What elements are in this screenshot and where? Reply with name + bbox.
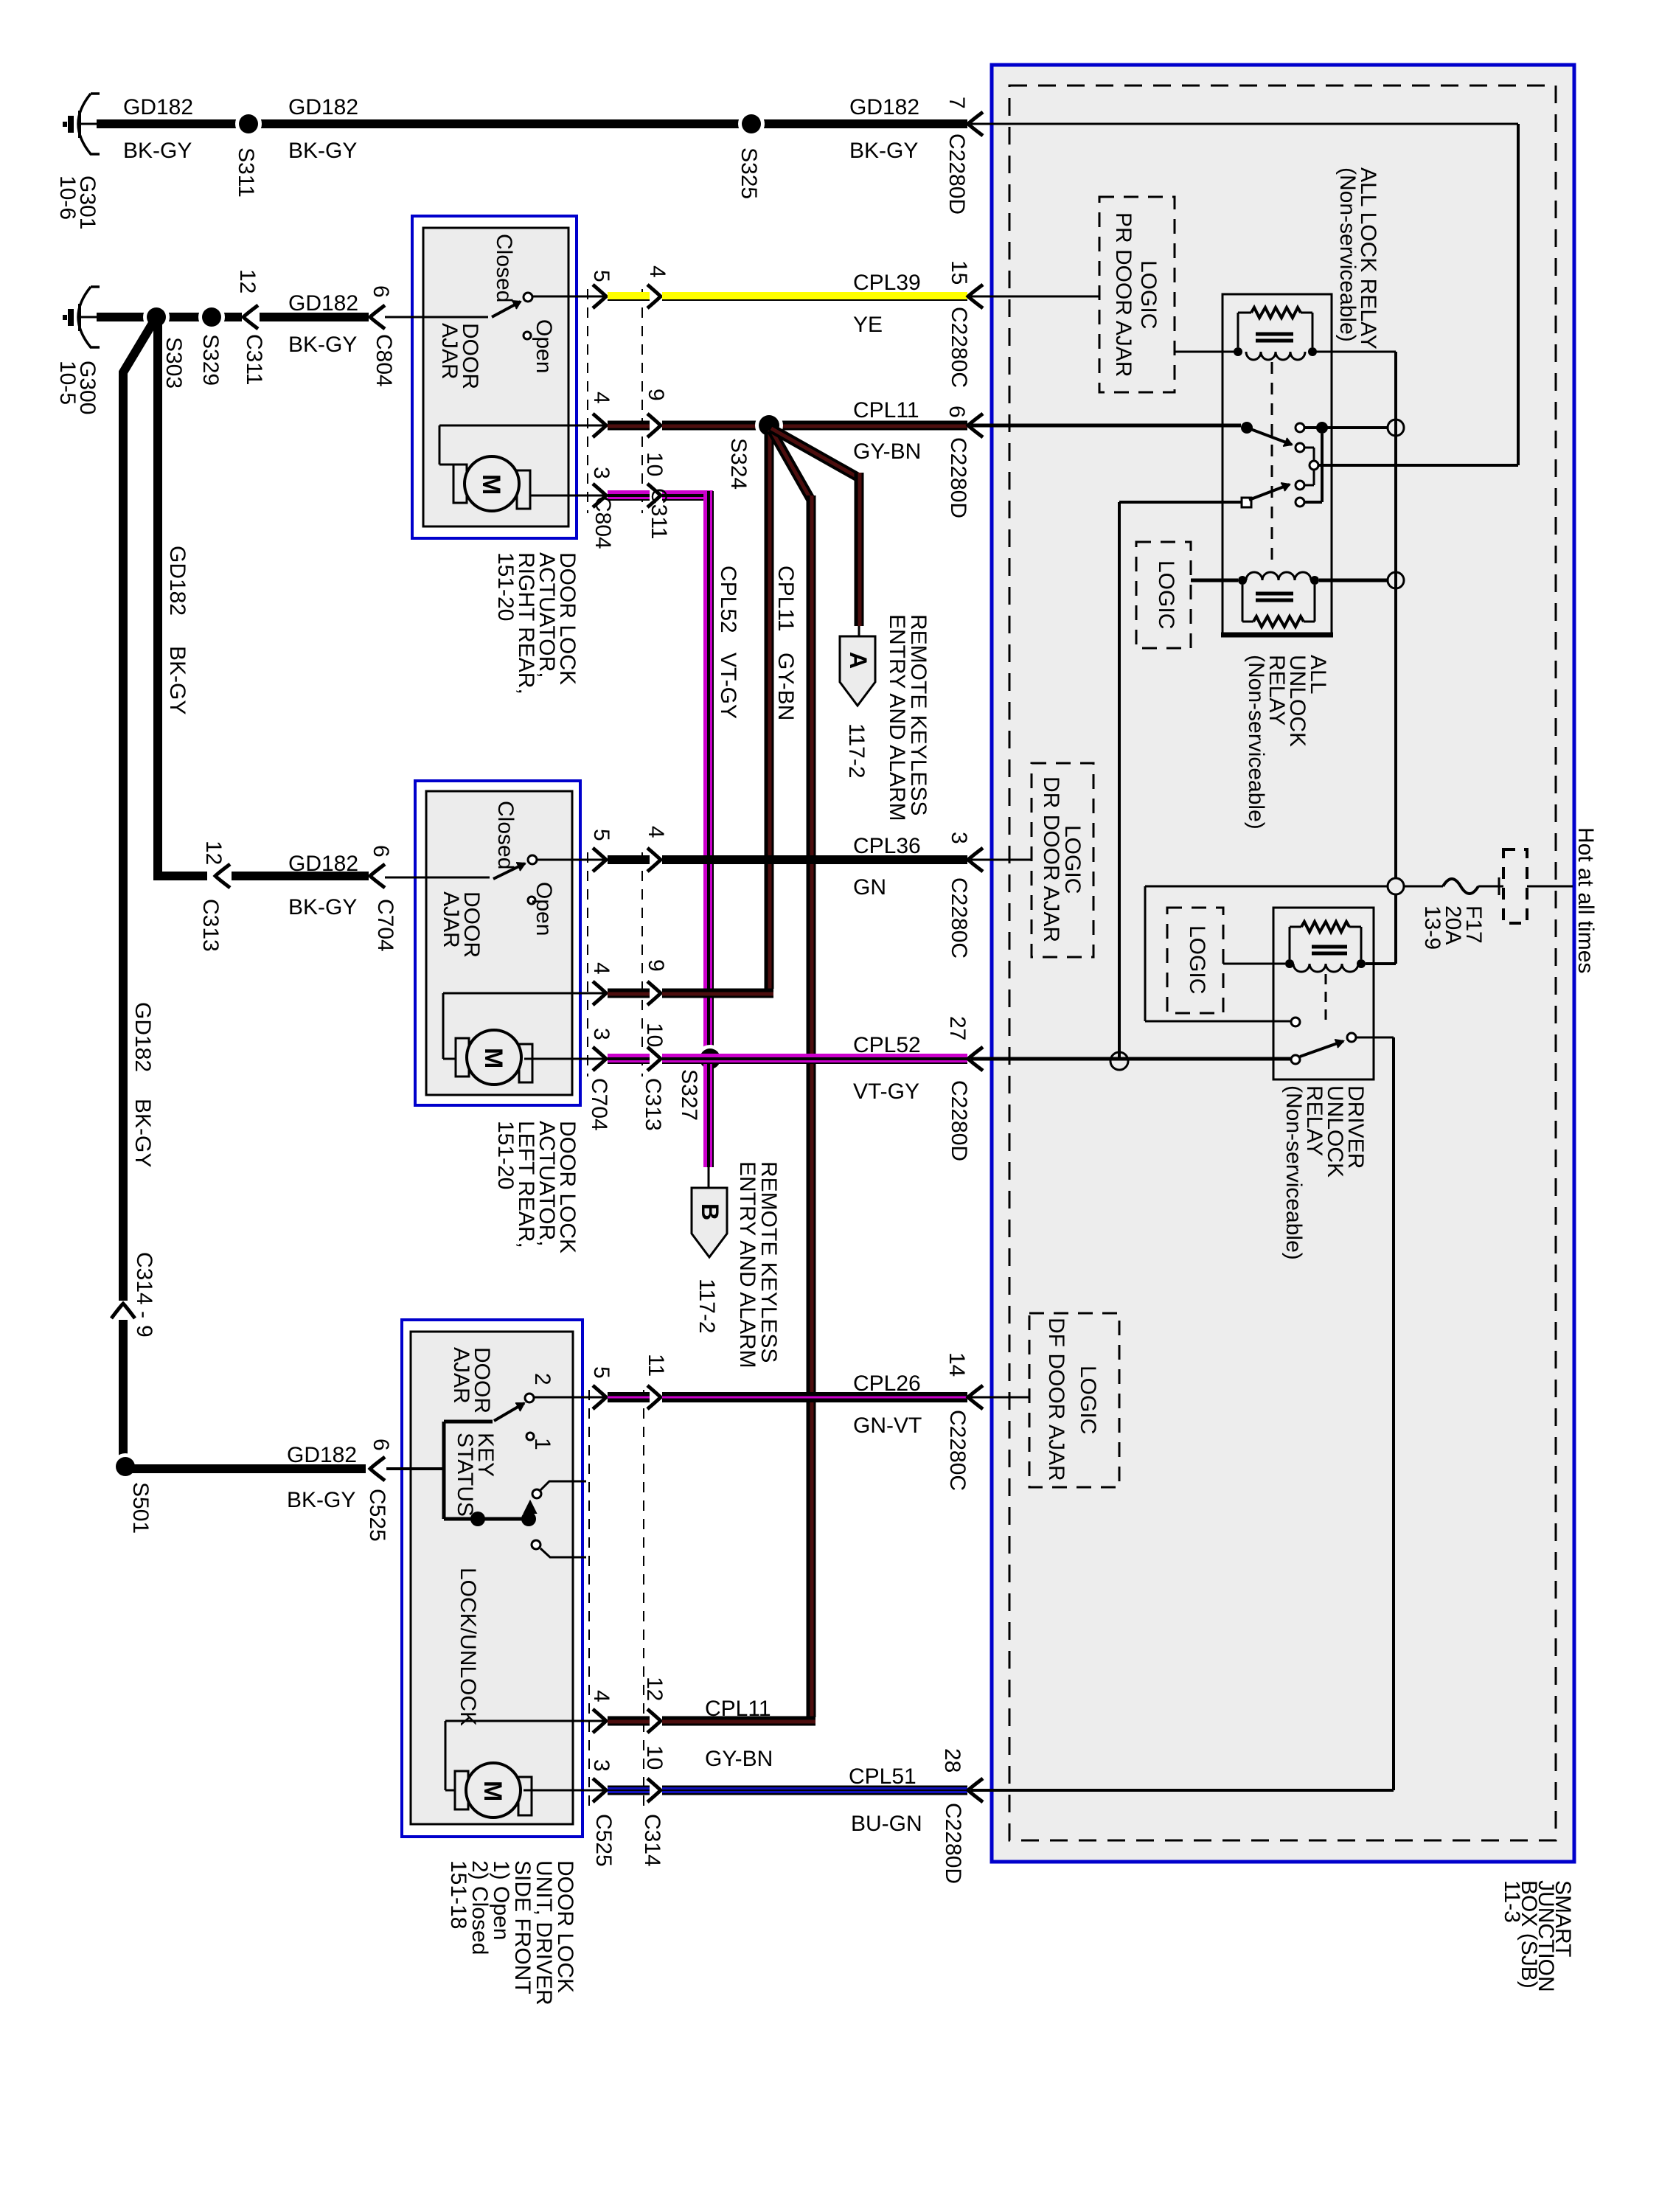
wire GD182 top ground wire (97, 119, 967, 128)
svg-text:C704: C704 (373, 899, 397, 952)
svg-text:GD182: GD182 (288, 852, 358, 876)
svg-text:151-18: 151-18 (446, 1860, 470, 1929)
svg-text:C2280C: C2280C (947, 877, 971, 959)
svg-text:3: 3 (947, 832, 971, 844)
svg-text:C2280C: C2280C (947, 307, 971, 388)
all lock relay coil and resistor (1251, 307, 1301, 318)
connector C2280D pin 27 arrow (968, 1047, 983, 1071)
wire CPL11 branch to driver door unit (771, 430, 811, 500)
wire into left rear actuator switch (385, 877, 490, 879)
svg-text:GD182: GD182 (131, 1002, 155, 1072)
bus wire to battery rings (1394, 352, 1397, 879)
svg-text:C314 -: C314 - (132, 1252, 156, 1318)
connector C2280D pin 7 arrow (968, 112, 983, 136)
svg-text:5: 5 (589, 1366, 613, 1379)
svg-text:11: 11 (644, 1354, 668, 1377)
key status sub-box (444, 1420, 493, 1424)
svg-text:C2280D: C2280D (941, 1803, 965, 1884)
svg-text:C2280D: C2280D (947, 1080, 971, 1161)
connector boundary C704 dashed (587, 852, 588, 1077)
wire CPL51 BU-GN from driver motor to SJB (593, 1778, 606, 1802)
svg-text:10-5: 10-5 (55, 361, 80, 405)
key status contact 2 (532, 1540, 540, 1549)
wire pole2 common to driver unlock relay feed (1119, 501, 1242, 504)
svg-text:LOCK/UNLOCK: LOCK/UNLOCK (456, 1568, 480, 1726)
svg-text:BK-GY: BK-GY (287, 1488, 355, 1512)
svg-text:151-20: 151-20 (493, 552, 518, 621)
svg-text:6: 6 (369, 1439, 393, 1451)
svg-text:BK-GY: BK-GY (288, 333, 357, 357)
svg-text:DF DOOR AJAR: DF DOOR AJAR (1044, 1318, 1068, 1481)
connector C2280D pin 28 arrow (968, 1778, 983, 1802)
svg-text:10-6: 10-6 (55, 175, 80, 220)
svg-text:9: 9 (132, 1325, 156, 1338)
connector boundary C311 dashed (641, 289, 643, 513)
svg-text:13-9: 13-9 (1420, 905, 1444, 950)
wire CPL52 VT-GY from left rear pin 3 to SJB (593, 1047, 606, 1071)
splice S324 (755, 411, 783, 439)
connector C314 pin 9 arrow (111, 1304, 135, 1318)
svg-text:CPL36: CPL36 (853, 834, 921, 858)
splice S325 (738, 111, 765, 137)
svg-text:B: B (697, 1203, 723, 1220)
svg-text:GN: GN (853, 875, 886, 900)
wire GD182 into key status (386, 1467, 444, 1470)
svg-text:GD182: GD182 (165, 546, 189, 616)
svg-text:12: 12 (235, 269, 260, 293)
svg-text:S324: S324 (726, 438, 751, 490)
svg-text:C2280D: C2280D (946, 437, 970, 518)
svg-text:4: 4 (589, 1690, 613, 1703)
svg-text:C311: C311 (242, 334, 266, 386)
svg-text:CPL52: CPL52 (853, 1033, 921, 1057)
connector C525 pin 6 arrow (370, 1457, 385, 1481)
wire CPL11 inside SJB to all lock relay (971, 424, 1241, 428)
door lock unit driver side front box (402, 1320, 582, 1837)
svg-text:M: M (477, 474, 505, 495)
svg-text:CPL52: CPL52 (716, 566, 740, 633)
svg-text:5: 5 (589, 829, 613, 841)
relay actuator dashed line driver (1325, 974, 1327, 1026)
wire CPL52 inside SJB to driver unlock relay (971, 1057, 1293, 1061)
svg-text:Hot at all times: Hot at all times (1573, 827, 1598, 973)
svg-text:PR DOOR AJAR: PR DOOR AJAR (1111, 212, 1135, 377)
svg-text:BK-GY: BK-GY (849, 139, 918, 163)
wire CPL52 vertical down to S327 (703, 491, 714, 1054)
key status contact 1 (532, 1489, 541, 1498)
motor M right rear (453, 465, 467, 503)
svg-text:AJAR: AJAR (449, 1347, 473, 1404)
wire CPL26 GN-VT from driver door ajar switch to SJB (593, 1385, 606, 1409)
svg-text:C804: C804 (591, 496, 615, 549)
all unlock relay coil (1191, 579, 1238, 582)
svg-text:S303: S303 (161, 337, 186, 389)
SJB inner dashed boundary (1009, 86, 1556, 1840)
wire CPL26 inside SJB to logic box (971, 1397, 1029, 1399)
svg-text:BK-GY: BK-GY (131, 1099, 155, 1167)
svg-text:CPL11: CPL11 (705, 1697, 771, 1721)
svg-text:11-3: 11-3 (1500, 1880, 1524, 1923)
relay actuator dashed line (1271, 362, 1273, 562)
connector C804 pin 6 arrow (370, 305, 385, 329)
svg-text:C525: C525 (365, 1489, 389, 1542)
svg-text:Closed: Closed (493, 801, 518, 869)
svg-text:3: 3 (589, 1759, 613, 1772)
wire CPL11 GY-BN into driver door unit pin 4 (593, 1709, 606, 1733)
svg-text:BK-GY: BK-GY (123, 139, 192, 163)
svg-text:C704: C704 (587, 1078, 611, 1131)
connector boundary C313 dashed (641, 852, 643, 1077)
svg-text:CPL26: CPL26 (853, 1371, 921, 1396)
svg-text:S325: S325 (737, 147, 761, 199)
svg-text:GD182: GD182 (288, 291, 358, 316)
all lock relay box (1222, 294, 1332, 635)
svg-text:3: 3 (589, 1028, 613, 1040)
wire GD182 from S501 to driver door unit (125, 1464, 366, 1473)
svg-text:117-2: 117-2 (844, 723, 869, 779)
wire logic to all lock relay coil (1175, 351, 1236, 353)
logic box 3 (1167, 908, 1223, 1013)
door lock actuator left rear box (415, 781, 580, 1105)
svg-text:15: 15 (947, 260, 971, 285)
svg-text:ENTRY AND ALARM: ENTRY AND ALARM (885, 614, 909, 821)
svg-text:S327: S327 (677, 1069, 701, 1121)
wire CPL39 inside SJB to logic box (971, 296, 1099, 298)
svg-text:BK-GY: BK-GY (288, 139, 357, 163)
svg-text:BU-GN: BU-GN (851, 1812, 922, 1836)
svg-text:GD182: GD182 (123, 95, 193, 119)
svg-text:6: 6 (369, 285, 393, 298)
svg-text:GD182: GD182 (849, 95, 919, 119)
svg-text:GD182: GD182 (287, 1443, 357, 1467)
connector C704 pin 6 arrow (370, 864, 385, 888)
connector C313 pin 12 arrow (215, 864, 230, 888)
svg-text:7: 7 (945, 97, 969, 109)
wire CPL39 YE yellow from switch to SJB (593, 285, 606, 308)
off-page connector B (692, 1188, 727, 1257)
connector boundary C525 dashed (588, 1390, 590, 1808)
smart junction box SJB outer box (992, 65, 1574, 1862)
svg-text:C2280C: C2280C (945, 1410, 970, 1491)
wire CPL52 below S327 to connector B (703, 1063, 714, 1167)
all lock relay contacts (1241, 422, 1253, 434)
svg-text:M: M (479, 1781, 507, 1801)
wire GD182 to C704 (232, 872, 369, 880)
svg-text:9: 9 (644, 389, 668, 401)
svg-text:S501: S501 (128, 1482, 153, 1534)
splice S501 (112, 1453, 139, 1480)
svg-text:1: 1 (530, 1438, 554, 1450)
svg-text:CPL11: CPL11 (773, 566, 798, 632)
connector boundary C804 dashed (587, 289, 588, 513)
svg-text:14: 14 (945, 1352, 969, 1377)
svg-text:4: 4 (589, 392, 613, 404)
wire CPL11 branch down to left rear actuator (765, 431, 774, 989)
svg-text:S311: S311 (234, 147, 258, 198)
wire CPL51 inside SJB to driver unlock relay (971, 1789, 1394, 1792)
svg-text:28: 28 (940, 1748, 964, 1773)
driver unlock relay coil (1301, 922, 1349, 932)
svg-text:S329: S329 (198, 334, 223, 386)
svg-text:Closed: Closed (492, 234, 516, 302)
off-page connector A (840, 636, 875, 706)
connector C2280D pin 6 arrow (968, 414, 983, 437)
wire GD182 trunk from S303 down to S501 (123, 317, 156, 1301)
svg-text:GY-BN: GY-BN (773, 653, 798, 720)
svg-text:YE: YE (853, 313, 883, 337)
svg-text:LOGIC: LOGIC (1076, 1366, 1100, 1434)
battery feed line and fuse F17 (1145, 886, 1388, 888)
svg-text:A: A (845, 652, 872, 669)
svg-text:DR DOOR AJAR: DR DOOR AJAR (1039, 776, 1063, 942)
wire CPL11 branch to connector A (771, 428, 858, 477)
ground G300 (79, 316, 97, 319)
bus from ring down to driver coil (1394, 894, 1397, 964)
fuse holder dashed box (1503, 849, 1527, 923)
svg-text:12: 12 (201, 841, 226, 865)
svg-text:ENTRY AND ALARM: ENTRY AND ALARM (735, 1161, 759, 1368)
svg-text:BK-GY: BK-GY (288, 895, 357, 919)
logic box DR DOOR AJAR (1032, 763, 1093, 957)
svg-text:117-2: 117-2 (695, 1279, 719, 1334)
svg-text:151-20: 151-20 (493, 1121, 518, 1189)
driver unlock relay contacts (1291, 1055, 1300, 1064)
svg-text:CPL39: CPL39 (853, 271, 921, 295)
svg-text:Open: Open (532, 882, 556, 936)
connector C2280C pin 14 arrow (968, 1385, 983, 1409)
svg-text:27: 27 (945, 1016, 970, 1040)
wire GD182 from S303 down to left rear actuator (153, 321, 162, 876)
svg-text:M: M (479, 1048, 507, 1068)
wire into right rear actuator switch (385, 316, 488, 319)
svg-text:2: 2 (530, 1373, 554, 1385)
logic box 2 (1136, 542, 1191, 648)
svg-text:GY-BN: GY-BN (853, 439, 921, 464)
svg-text:CPL51: CPL51 (849, 1764, 917, 1789)
svg-text:VT-GY: VT-GY (716, 653, 740, 719)
wire GD182 inside SJB to relay contacts (971, 123, 1518, 125)
svg-text:12: 12 (642, 1677, 667, 1701)
svg-text:LOGIC: LOGIC (1185, 925, 1209, 994)
svg-text:AJAR: AJAR (439, 891, 463, 948)
connector C311 pin 12 arrow (243, 305, 258, 329)
driver unlock relay box (1273, 908, 1374, 1079)
wire GD182 to right rear actuator (97, 313, 242, 321)
logic box DF DOOR AJAR (1029, 1313, 1119, 1487)
svg-text:GN-VT: GN-VT (853, 1413, 922, 1438)
ground G301 (79, 123, 97, 125)
svg-text:BK-GY: BK-GY (165, 646, 189, 714)
svg-text:LOGIC: LOGIC (1136, 260, 1161, 329)
connector C2280C pin 15 arrow (968, 285, 983, 308)
wire CPL36 GN from left rear switch to SJB (593, 848, 606, 872)
svg-text:9: 9 (644, 959, 668, 972)
wire CPL11 GY-BN from right rear actuator (593, 414, 606, 437)
splice S303 (143, 304, 170, 330)
svg-text:(Non-serviceable): (Non-serviceable) (1335, 167, 1360, 342)
motor M driver door (455, 1771, 468, 1809)
splice S329 (198, 304, 225, 330)
connector boundary C314 dashed (643, 1390, 644, 1808)
splice S327 (696, 1045, 724, 1073)
wire CPL11 GY-BN into left rear pin 4 (593, 981, 606, 1005)
svg-text:4: 4 (644, 826, 668, 838)
svg-text:C2280D: C2280D (945, 133, 969, 215)
svg-text:6: 6 (945, 406, 969, 418)
wire CPL36 inside SJB to logic box (971, 859, 1032, 861)
svg-text:C314: C314 (640, 1814, 664, 1867)
motor M left rear (456, 1038, 469, 1077)
svg-text:(Non-serviceable): (Non-serviceable) (1281, 1085, 1306, 1260)
svg-text:10: 10 (642, 452, 667, 476)
connector C2280C pin 3 arrow (968, 848, 983, 872)
svg-text:6: 6 (369, 845, 393, 858)
door lock actuator right rear box (412, 216, 577, 538)
svg-text:C313: C313 (198, 899, 223, 952)
svg-text:VT-GY: VT-GY (853, 1079, 919, 1104)
svg-text:AJAR: AJAR (437, 323, 462, 380)
logic box PR DOOR AJAR (1099, 197, 1175, 392)
svg-text:10: 10 (642, 1745, 667, 1770)
svg-text:GD182: GD182 (288, 95, 358, 119)
wire CPL52 VT-GY from right rear actuator (593, 484, 606, 507)
all lock relay pole 2 common (1242, 498, 1251, 507)
splice S311 (235, 111, 262, 137)
svg-text:C525: C525 (591, 1814, 616, 1867)
svg-text:3: 3 (589, 467, 613, 479)
svg-text:GY-BN: GY-BN (705, 1747, 773, 1771)
svg-text:Open: Open (532, 319, 556, 373)
svg-text:LOGIC: LOGIC (1154, 560, 1178, 629)
svg-text:CPL11: CPL11 (853, 398, 919, 422)
svg-text:C804: C804 (372, 334, 396, 387)
svg-text:10: 10 (642, 1023, 667, 1047)
svg-text:C311: C311 (647, 488, 671, 540)
svg-text:4: 4 (589, 962, 613, 975)
svg-text:(Non-serviceable): (Non-serviceable) (1244, 655, 1268, 829)
svg-text:4: 4 (645, 265, 669, 278)
svg-text:5: 5 (589, 270, 613, 282)
svg-text:C313: C313 (641, 1078, 665, 1131)
svg-text:STATUS: STATUS (453, 1433, 477, 1517)
